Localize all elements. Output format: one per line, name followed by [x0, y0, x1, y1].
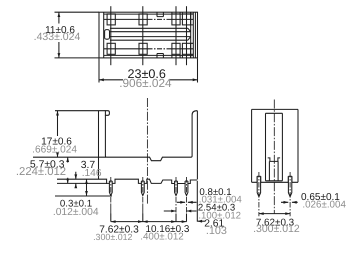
svg-text:.103: .103 — [206, 225, 227, 237]
front view bottom profile — [99, 179, 198, 183]
side view pin slots — [257, 176, 292, 182]
svg-text:.224±.012: .224±.012 — [16, 166, 66, 178]
front view pin 2 — [141, 181, 144, 196]
front view center line — [146, 98, 148, 204]
svg-text:.300±.012: .300±.012 — [93, 232, 132, 242]
top view right V diagonals — [188, 12, 191, 58]
dim 0.3 arrows — [75, 172, 77, 188]
side view pin 1 — [257, 176, 260, 196]
svg-text:.300±.012: .300±.012 — [253, 223, 300, 235]
top view middle rails — [110, 28, 191, 40]
case bottom extension lines — [57, 179, 107, 183]
dim 7.62 side line — [259, 213, 290, 215]
dim 17 extension mid — [33, 156, 106, 158]
bottom chain dim line — [111, 221, 187, 223]
dim 2.54 arrows — [164, 210, 197, 212]
side view pin 2 — [288, 176, 291, 196]
side view pin center lines — [259, 172, 290, 216]
top view row line bottom — [104, 48, 194, 50]
dim 0.65 arrows — [281, 201, 298, 203]
svg-text:.026±.004: .026±.004 — [302, 200, 346, 211]
dim 5.7 line — [67, 157, 69, 183]
top view pin squares bottom row — [107, 43, 115, 54]
dim 11 line — [58, 12, 60, 58]
side view outer rect — [252, 109, 298, 182]
top view pin column line 3 — [175, 6, 177, 65]
side view center line — [273, 100, 275, 214]
dim 17 line — [57, 111, 59, 158]
top view left notch — [105, 30, 110, 40]
side view cup — [268, 158, 280, 162]
svg-text:.012±.004: .012±.004 — [53, 207, 99, 218]
top view top bump — [157, 12, 163, 16]
dim 23 extension lines — [99, 59, 198, 83]
pin tip extension line — [55, 195, 112, 197]
dim 17 extension top — [55, 110, 99, 112]
front view pin center lines — [111, 177, 187, 214]
front view mid line right — [147, 111, 197, 180]
case right extension line — [196, 181, 198, 222]
svg-text:.669±.024: .669±.024 — [32, 145, 77, 156]
front view top tab — [105, 111, 109, 116]
side view inner rect — [266, 113, 283, 181]
top view bottom bump — [157, 54, 163, 58]
top view inner lines — [104, 12, 196, 58]
top view pin squares top row — [107, 14, 115, 25]
top view outer rect — [99, 12, 198, 58]
svg-text:.400±.012: .400±.012 — [140, 232, 184, 243]
svg-text:.906±.024: .906±.024 — [119, 76, 172, 90]
front view outline left — [99, 111, 148, 180]
top view col3 col4 stubs — [172, 12, 193, 58]
top view pin column line 2 — [142, 6, 144, 65]
top view row line top — [104, 18, 194, 20]
side view channel — [269, 161, 278, 180]
svg-text:.146: .146 — [82, 168, 102, 179]
bottom chain dim verticals — [111, 214, 187, 222]
top view pin column line 1 — [110, 6, 112, 65]
dim 0.8 arrows — [177, 201, 197, 203]
top view pin column line 4 — [186, 6, 188, 65]
svg-text:.433±.024: .433±.024 — [34, 31, 81, 43]
dim 11 extension lines — [55, 12, 100, 58]
front view pin 3 — [175, 181, 178, 196]
front view pin 1 — [109, 181, 112, 196]
dim 23 line — [99, 79, 198, 81]
dim 2.61 right arrow and leader — [197, 220, 205, 222]
dim 3.7 line — [86, 179, 88, 196]
front view pin 4 — [185, 181, 188, 196]
